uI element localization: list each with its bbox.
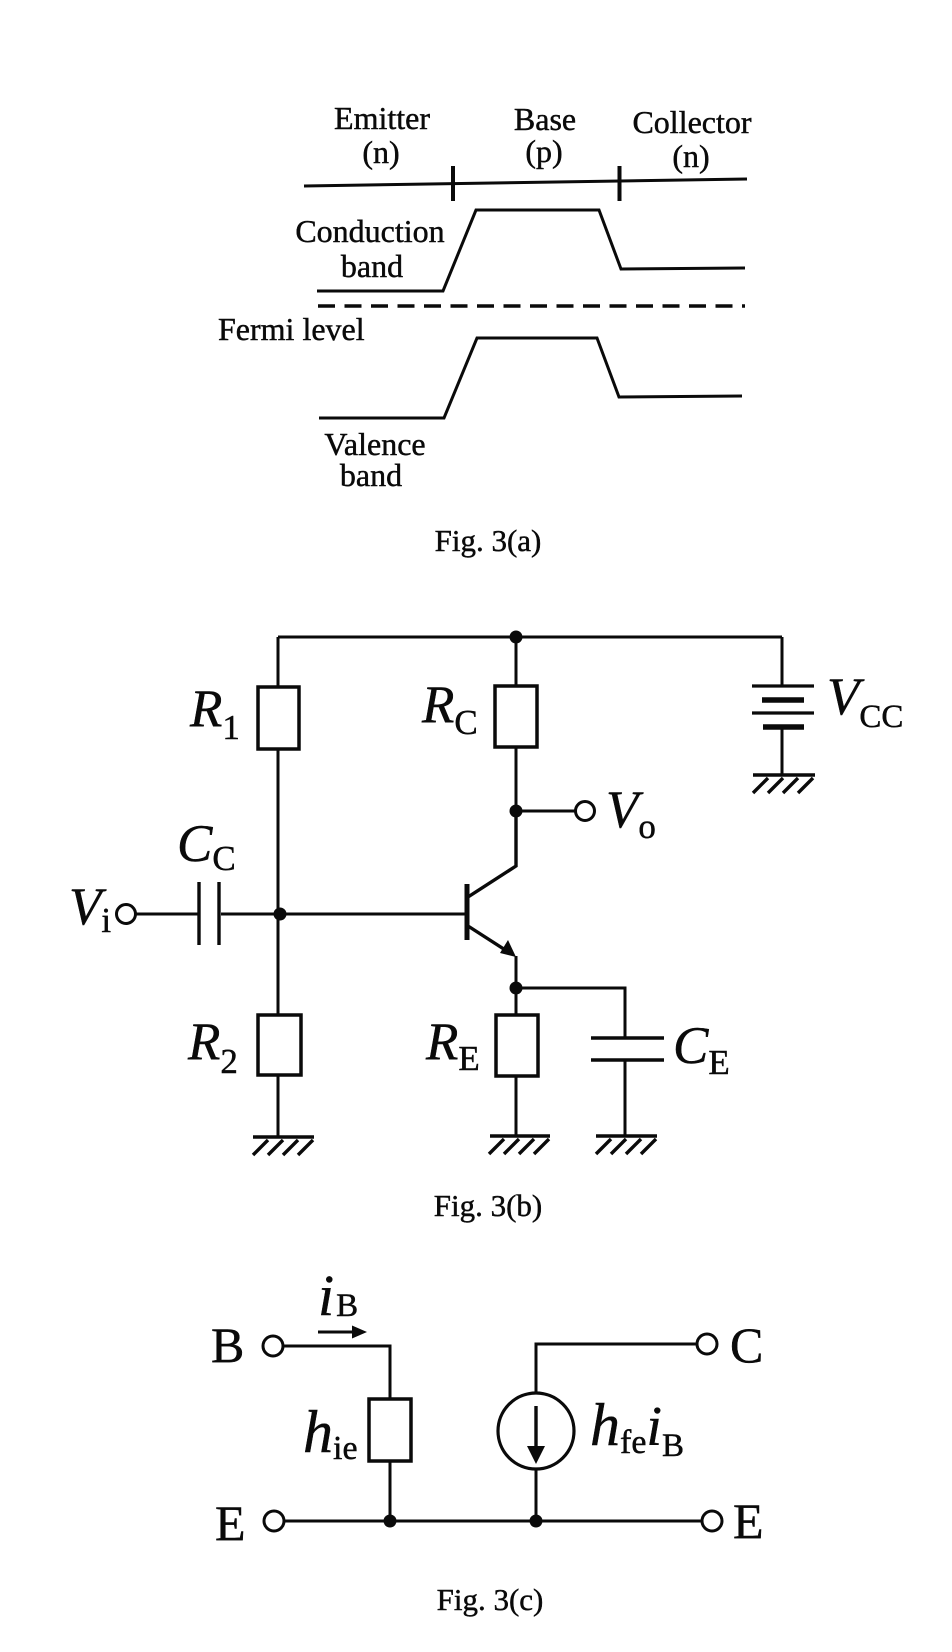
svg-text:Fig. 3(a): Fig. 3(a) [435,523,542,558]
node emitter junction [510,982,523,995]
svg-text:E: E [733,1493,764,1549]
node B base junction [274,908,287,921]
capacitor CC [197,882,200,945]
resistor RC [495,686,537,747]
wire R2 to ground [277,1075,280,1137]
svg-text:Fig. 3(c): Fig. 3(c) [437,1582,544,1617]
wire emitter node to CE [516,988,625,1037]
current source hfe iB circle [498,1393,574,1469]
svg-text:(p): (p) [525,133,562,169]
current source arrow shaft [534,1406,537,1449]
wire E rail [284,1520,701,1523]
wire B terminal to hie branch [283,1346,390,1399]
transistor Q1 base bar [465,884,470,940]
node source-E junction [530,1515,543,1528]
capacitor CE [591,1036,664,1039]
arrow iB current [318,1331,358,1334]
ground below R2 [253,1137,314,1155]
svg-text:band: band [341,248,403,284]
wire current source to E rail [535,1469,538,1521]
svg-text:band: band [340,457,402,493]
ground below battery VCC [753,775,815,793]
ground below CE [596,1136,657,1154]
wire Vi terminal to capacitor CC [135,913,198,916]
tick emitter-base junction [451,166,455,201]
svg-text:(n): (n) [362,134,399,170]
battery VCC [752,684,814,687]
svg-text:Emitter: Emitter [334,100,430,136]
transistor Q1 emitter arrowhead [500,940,516,957]
wire R1 to base node to R2 [277,749,280,1015]
wire current source to C terminal [536,1344,697,1393]
resistor R1 [258,687,299,749]
wire collector [468,811,516,897]
terminal B [263,1336,283,1356]
arrowhead iB [352,1326,367,1339]
node junction on top rail [510,631,523,644]
wire rail to R1 [277,637,280,687]
wire CE to ground [624,1061,627,1136]
svg-text:Fig. 3(b): Fig. 3(b) [434,1188,543,1223]
svg-text:Base: Base [514,101,576,137]
Fermi level dashed line [318,304,745,308]
wire hie to E rail [389,1461,392,1521]
arrowhead current source [527,1446,545,1464]
valence band line [319,338,742,418]
svg-text:Conduction: Conduction [295,213,444,249]
svg-text:Fermi level: Fermi level [218,311,365,347]
wire top supply rail [278,636,782,639]
wire rail to RC [515,637,518,686]
ground below RE [489,1136,550,1154]
svg-text:C: C [730,1317,763,1373]
svg-text:B: B [211,1317,244,1373]
node hie-E junction [384,1515,397,1528]
resistor RE [496,1015,538,1076]
terminal Vo [576,802,595,821]
tick base-collector junction [618,166,622,201]
wire emitter to emitter node [515,956,518,988]
resistor hie [369,1399,411,1461]
terminal E right [702,1511,722,1531]
terminal C [697,1334,717,1354]
svg-text:E: E [215,1495,246,1551]
svg-text:(n): (n) [672,138,709,174]
conduction band line [317,210,745,291]
wire battery to ground [781,729,784,775]
wire rail to battery VCC [781,637,784,686]
wire RE to ground [515,1076,518,1136]
resistor R2 [258,1015,301,1075]
transistor Q1 emitter with arrow [468,926,510,953]
wire CC to base node to transistor base [221,913,465,916]
svg-text:Collector: Collector [632,104,751,140]
node Vo junction [510,805,523,818]
terminal Vi [117,905,136,924]
wire emitter node to RE [515,988,518,1015]
region axis line [304,179,747,186]
terminal E left [264,1511,284,1531]
wire Vo node to Vo terminal [516,810,576,813]
wire RC to Vo node [515,747,518,811]
